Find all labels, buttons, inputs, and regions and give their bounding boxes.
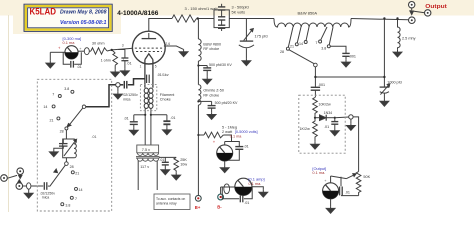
- resistor R7 1K/2w: [313, 118, 318, 142]
- svg-text:21: 21: [50, 119, 54, 123]
- ground fil left cap: [129, 128, 138, 135]
- capacitor .01 grid bypass: [118, 50, 128, 69]
- svg-text:+: +: [324, 179, 327, 183]
- ground under grid bypass: [121, 69, 130, 76]
- svg-text:21: 21: [290, 45, 294, 49]
- svg-text:5K volts: 5K volts: [232, 10, 246, 14]
- ground under 2.5mhy: [393, 50, 402, 57]
- inductor L6 Ohmite Z-50: [198, 85, 201, 105]
- meter M1 grid 0-300ma: [50, 46, 78, 61]
- wire bias out: [335, 116, 349, 119]
- svg-text:14: 14: [299, 42, 303, 46]
- transformer primary leads: [138, 161, 157, 190]
- capacitor .02/1250v mica upper: [120, 79, 145, 89]
- ground under feedthru: [114, 92, 123, 99]
- svg-text:RF choke: RF choke: [203, 47, 219, 51]
- ground screen: [179, 49, 188, 56]
- ground bias connector: [347, 123, 356, 130]
- wire choke to junction: [197, 61, 199, 85]
- svg-text:.01: .01: [77, 65, 82, 69]
- svg-text:25K: 25K: [180, 158, 187, 162]
- svg-text:7: 7: [315, 41, 317, 45]
- switch arm lower input: [50, 165, 66, 186]
- connector input top: [17, 168, 24, 179]
- svg-text:+: +: [58, 46, 61, 51]
- capacitor C2 tune 175pfd: [239, 19, 254, 59]
- svg-text:+: +: [213, 140, 216, 145]
- svg-text:1000 pfd: 1000 pfd: [387, 81, 401, 85]
- ground input line: [24, 191, 33, 198]
- scan fold line: [8, 15, 10, 212]
- capacitor C1 blocking bank 3-500pfd: [214, 4, 229, 31]
- svg-text:14: 14: [43, 105, 47, 109]
- svg-text:7: 7: [75, 197, 77, 201]
- svg-text:50K: 50K: [363, 175, 370, 179]
- svg-text:500 pfd/30 KV: 500 pfd/30 KV: [209, 63, 232, 67]
- svg-text:28: 28: [70, 165, 74, 169]
- svg-text:0.1 ma.: 0.1 ma.: [248, 181, 261, 186]
- svg-text:.01: .01: [244, 201, 249, 205]
- svg-text:10K/2w: 10K/2w: [318, 102, 331, 106]
- svg-text:7.5 v: 7.5 v: [142, 148, 150, 152]
- svg-text:1K/2w: 1K/2w: [300, 127, 311, 131]
- title box: [24, 4, 112, 31]
- svg-text:mica: mica: [123, 97, 130, 101]
- ground left of grid meter: [46, 61, 55, 68]
- wire Z50 down to B+: [197, 105, 199, 195]
- wire tank to output jack: [351, 19, 409, 20]
- ground under 1 ohm: [111, 70, 120, 77]
- svg-text:B&W #800: B&W #800: [203, 42, 221, 46]
- svg-text:3 - 500pfd: 3 - 500pfd: [232, 6, 249, 10]
- capacitor .01 grid meter shunt: [63, 52, 81, 67]
- connector J3 antenna top: [409, 1, 415, 14]
- svg-text:28: 28: [280, 50, 284, 54]
- tube heater pins: [145, 60, 153, 88]
- tube plate bar: [142, 33, 157, 39]
- capacitor .02/1250v mica input: [44, 182, 50, 190]
- ground under loading cap: [380, 99, 389, 106]
- ground under 25K: [172, 173, 181, 180]
- svg-text:.01: .01: [127, 62, 132, 66]
- svg-text:Choke: Choke: [160, 98, 171, 102]
- svg-text:28: 28: [60, 129, 64, 133]
- connector J4 output jack: [425, 10, 431, 16]
- svg-text:0.1 ma.: 0.1 ma.: [312, 170, 325, 175]
- svg-text:4-1000A/8166: 4-1000A/8166: [117, 10, 158, 17]
- capacitor .01 fil right: [151, 115, 171, 128]
- svg-text:3: 3: [122, 44, 124, 48]
- ground under .001 tap cap: [342, 60, 351, 67]
- capacitor .01 bleeder: [162, 157, 169, 167]
- dashed box filament choke: [140, 85, 156, 111]
- svg-text:B-: B-: [217, 204, 222, 209]
- svg-text:3.8: 3.8: [321, 47, 326, 51]
- input band contacts lower: [61, 171, 78, 206]
- contact 28 lower: [65, 162, 69, 166]
- svg-text:.01: .01: [244, 144, 249, 148]
- band contacts output switch: [286, 40, 330, 50]
- svg-text:10w: 10w: [180, 163, 187, 167]
- svg-text:Drawn May 8, 2008: Drawn May 8, 2008: [60, 9, 107, 15]
- svg-text:7: 7: [52, 93, 54, 97]
- wire to bleeder: [159, 156, 176, 158]
- ground output meter: [326, 206, 335, 213]
- svg-text:B+: B+: [195, 205, 201, 210]
- svg-text:1: 1: [140, 64, 142, 68]
- capacitor .001 on 3.8 tap: [330, 46, 349, 60]
- resistor R6 10K/2w: [313, 97, 318, 117]
- svg-text:3 - 150 ohm/1 watt: 3 - 150 ohm/1 watt: [185, 6, 219, 11]
- ground input padder: [49, 150, 58, 157]
- meter M3 plate 0.1amp: [221, 178, 264, 195]
- connector input bottom: [16, 180, 23, 190]
- svg-text:.01: .01: [324, 125, 329, 129]
- resistor R5 5x1Meg: [198, 132, 231, 141]
- dashed box input network: [37, 79, 111, 211]
- svg-text:3.8: 3.8: [64, 87, 69, 91]
- connector J1 RF input: [1, 175, 8, 182]
- wire input to cathode: [86, 85, 116, 107]
- junction dots B+ line: [197, 64, 199, 136]
- fuse input line: [27, 183, 31, 191]
- wire pole to loading cap: [315, 76, 384, 78]
- switch S1 pole bandswitch: [289, 50, 317, 77]
- connector B-: [218, 194, 224, 200]
- wire to blocking caps: [197, 18, 215, 20]
- inductor L5 B&W 800 plate choke: [198, 39, 201, 61]
- svg-text:.01/1kv: .01/1kv: [157, 73, 169, 77]
- svg-text:Output: Output: [425, 4, 447, 10]
- resistor R1 parasitic 3-150 ohm: [172, 15, 197, 22]
- svg-text:mica: mica: [42, 196, 49, 200]
- meter M2 HV 0-5000v: [217, 142, 244, 166]
- wire B+ feed line: [197, 19, 199, 40]
- ground under HV meter: [220, 165, 229, 172]
- svg-text:1 ohm: 1 ohm: [101, 58, 111, 62]
- switch S2 input pole: [67, 105, 86, 127]
- ground plate meter: [259, 190, 268, 197]
- capacitor C4 loading 1000pfd: [380, 19, 390, 100]
- wire input to mica cap: [23, 185, 44, 187]
- svg-text:3.8: 3.8: [65, 203, 70, 207]
- svg-text:1N34: 1N34: [324, 111, 333, 115]
- junction dot grid: [111, 49, 113, 51]
- svg-text:.01: .01: [170, 116, 175, 120]
- svg-text:2.5 mhy: 2.5 mhy: [402, 36, 416, 40]
- svg-text:7: 7: [123, 57, 125, 61]
- svg-text:175 pfd: 175 pfd: [255, 33, 268, 38]
- svg-text:5 - 1Meg: 5 - 1Meg: [222, 125, 237, 129]
- svg-text:.01: .01: [345, 190, 350, 194]
- wire choke to transformer: [145, 108, 151, 145]
- meter M4 output 0.1ma: [323, 176, 347, 206]
- ground 30KV cap: [203, 77, 212, 84]
- svg-text:.02/1250v: .02/1250v: [122, 93, 138, 97]
- resistor R8 pot 50K: [347, 172, 361, 196]
- capacitor .01 fil left: [130, 115, 145, 128]
- junction dots tank line: [197, 17, 399, 78]
- inductor L3 safety choke 2.5mhy: [398, 19, 401, 50]
- svg-text:Version 05-08-08:1: Version 05-08-08:1: [60, 20, 107, 26]
- svg-text:14: 14: [79, 188, 83, 192]
- tube cathode: [145, 54, 153, 60]
- capacitor .001 under pole: [311, 77, 320, 97]
- svg-text:.01: .01: [124, 117, 129, 121]
- inductor L2 slug tuned input: [63, 130, 77, 162]
- relay arm input: [7, 175, 17, 178]
- ground bias cap: [330, 129, 339, 136]
- svg-text:B&W 850A: B&W 850A: [298, 11, 318, 16]
- ground 20KV cap: [207, 112, 216, 119]
- svg-text:2,6: 2,6: [165, 42, 170, 46]
- svg-text:5: 5: [155, 64, 157, 68]
- svg-text:Filament: Filament: [160, 93, 176, 97]
- ground under tune cap: [242, 58, 251, 65]
- inductor L1 tank coil B&W 850A: [274, 19, 351, 28]
- coil tap wires: [288, 27, 333, 47]
- capacitor 500pfd/30KV: [198, 66, 211, 77]
- capacitor .01 plate meter shunt: [222, 187, 252, 202]
- tube V1 envelope: [132, 31, 165, 64]
- junction dots bias: [314, 117, 336, 119]
- fuse grid line: [78, 48, 91, 55]
- svg-text:antenna relay: antenna relay: [156, 202, 177, 206]
- transformer T1 7.5v winding: [137, 145, 159, 155]
- capacitor 500pfd/20KV: [198, 101, 215, 112]
- svg-text:21: 21: [75, 172, 79, 176]
- svg-text:.01: .01: [92, 135, 97, 139]
- junction dots fil: [144, 114, 152, 116]
- paper background cream band: [0, 0, 474, 16]
- transformer core: [136, 157, 159, 159]
- input band contacts upper: [52, 90, 74, 130]
- resistor R3 1 ohm: [112, 50, 118, 70]
- svg-text:117 v: 117 v: [140, 165, 149, 169]
- svg-text:.01: .01: [159, 158, 164, 162]
- capacitor input padder: [54, 139, 68, 149]
- diode D1 1N34: [315, 115, 335, 121]
- wire to ALC pot: [353, 117, 359, 172]
- connector feedthru input: [116, 83, 120, 92]
- resistor R4 25K 10w: [174, 157, 179, 172]
- svg-text:2 watt: 2 watt: [222, 130, 233, 134]
- svg-text:500 pfd/20 KV: 500 pfd/20 KV: [215, 101, 238, 105]
- relay arm to output: [410, 11, 425, 13]
- wire caps to tank coil: [229, 18, 274, 20]
- resistor R2 30 ohm: [91, 48, 107, 54]
- dashed box bias: [299, 95, 345, 153]
- connector J2 tank out: [409, 17, 416, 24]
- capacitor .01 bias: [331, 118, 338, 129]
- svg-text:+: +: [79, 47, 82, 51]
- svg-text:K5LAD: K5LAD: [30, 7, 57, 17]
- svg-text:RF choke: RF choke: [203, 93, 219, 97]
- connector bias out: [349, 115, 353, 123]
- capacitor .01/1kv filament: [147, 75, 150, 83]
- ground under 1K: [311, 142, 320, 149]
- svg-text:Ohmite Z-50: Ohmite Z-50: [203, 89, 224, 93]
- svg-text:[0-5000 volts]: [0-5000 volts]: [235, 130, 258, 134]
- inductor L4 filament choke: [144, 88, 153, 108]
- box to aux contacts: [154, 194, 190, 210]
- fuse B- line: [224, 184, 230, 194]
- capacitor .01 output meter: [340, 177, 359, 196]
- ground bleeder cap: [161, 168, 170, 175]
- svg-text:0.1 ma: 0.1 ma: [230, 134, 242, 138]
- wire plate lead: [149, 19, 172, 32]
- connector B+: [195, 195, 201, 201]
- svg-text:30 ohm: 30 ohm: [92, 41, 105, 45]
- svg-text:.001: .001: [349, 55, 356, 59]
- transformer 117v winding: [137, 159, 158, 162]
- svg-text:.001: .001: [318, 83, 325, 87]
- ground fil right cap: [163, 128, 172, 135]
- wire screen to ground: [164, 46, 184, 49]
- svg-text:0.1 ma: 0.1 ma: [63, 40, 76, 45]
- wire grid to tube pin: [107, 48, 133, 51]
- tube grid dashes: [135, 48, 163, 51]
- svg-text:To aux. contacts on: To aux. contacts on: [156, 197, 185, 201]
